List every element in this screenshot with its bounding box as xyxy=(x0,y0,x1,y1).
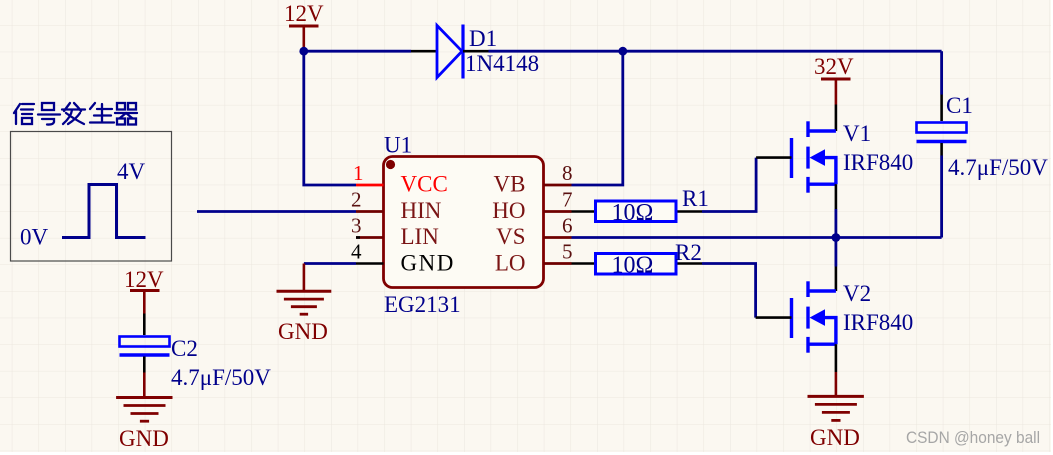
power port 12V (top) xyxy=(284,1,324,51)
transistor V1 arrow xyxy=(810,149,826,166)
svg-text:VCC: VCC xyxy=(401,172,448,197)
信 xyxy=(14,104,20,124)
signal generator title 信号发生器 xyxy=(14,103,137,125)
svg-text:VB: VB xyxy=(494,172,526,197)
生 xyxy=(90,103,114,123)
transistor V1 xyxy=(792,121,836,192)
发 xyxy=(62,103,85,124)
svg-text:V1: V1 xyxy=(843,121,871,146)
diode D1 xyxy=(437,25,463,79)
svg-text:0V: 0V xyxy=(20,225,49,250)
capacitor C1 xyxy=(917,123,967,142)
resistor R1 leads xyxy=(572,210,703,213)
capacitor C2 bottom lead xyxy=(143,357,146,373)
svg-text:R1: R1 xyxy=(682,186,709,211)
svg-text:3: 3 xyxy=(351,214,362,238)
resistor R2 leads xyxy=(572,262,703,265)
IC orientation dot xyxy=(386,160,395,169)
pin 8 stub xyxy=(544,184,572,187)
capacitor C1 top lead xyxy=(940,51,943,94)
transistor V2 xyxy=(792,281,836,352)
wire: top rail left (12V to diode) xyxy=(304,50,411,53)
svg-text:HO: HO xyxy=(492,198,525,223)
wire: V1 source to midpoint to V2 drain xyxy=(835,209,838,267)
signal generator box xyxy=(11,132,172,262)
junction above pin8 riser xyxy=(618,47,627,56)
power port 32V xyxy=(814,54,854,105)
resistor R2 xyxy=(596,254,677,275)
svg-text:10Ω: 10Ω xyxy=(612,253,654,279)
svg-text:12V: 12V xyxy=(124,267,164,292)
wire: VS rail xyxy=(572,236,942,239)
svg-text:32V: 32V xyxy=(814,54,854,79)
wire: riser down to pin 8 xyxy=(572,51,623,185)
capacitor C1 bottom lead xyxy=(940,143,943,156)
号 xyxy=(42,103,54,110)
wire: R1 to V1 gate xyxy=(702,158,756,212)
器 xyxy=(117,103,125,110)
wire: top rail diode to C1 corner xyxy=(489,50,942,53)
wire: HIN input xyxy=(197,210,356,213)
pin 2 stub xyxy=(356,210,384,213)
svg-text:C1: C1 xyxy=(946,93,973,118)
power port 12V (C2) xyxy=(124,267,164,314)
transistor V1 drain pin xyxy=(835,105,838,132)
svg-text:4.7μF/50V: 4.7μF/50V xyxy=(948,155,1048,180)
svg-text:GND: GND xyxy=(278,319,328,344)
transistor V2 source pin xyxy=(835,344,838,372)
svg-text:IRF840: IRF840 xyxy=(843,310,913,335)
junction at 12V rail xyxy=(299,47,308,56)
junction at half-bridge midpoint xyxy=(832,233,841,242)
svg-text:4V: 4V xyxy=(117,159,146,184)
capacitor C2 top lead xyxy=(143,314,146,336)
pin 1 stub (VCC, highlighted) xyxy=(356,184,384,187)
svg-text:7: 7 xyxy=(562,188,573,212)
svg-text:HIN: HIN xyxy=(401,198,442,223)
svg-text:1: 1 xyxy=(353,161,364,185)
pin 3 stub xyxy=(356,236,384,239)
diode D1 anode lead xyxy=(411,50,437,53)
svg-text:8: 8 xyxy=(562,161,573,185)
svg-text:VS: VS xyxy=(496,224,525,249)
svg-text:5: 5 xyxy=(562,240,573,264)
transistor V1 gate pin xyxy=(756,156,791,159)
pin 4 stub xyxy=(356,262,384,265)
diode D1 cathode lead xyxy=(463,50,489,53)
svg-text:V2: V2 xyxy=(843,281,871,306)
ground GND (V2) xyxy=(808,372,864,420)
svg-text:LIN: LIN xyxy=(401,224,440,249)
svg-text:D1: D1 xyxy=(469,26,497,51)
ground GND (U1) xyxy=(277,264,332,315)
svg-text:4.7μF/50V: 4.7μF/50V xyxy=(171,365,271,390)
pin 7 stub xyxy=(544,210,572,213)
svg-text:U1: U1 xyxy=(384,133,412,158)
svg-text:GND: GND xyxy=(810,425,860,450)
svg-text:IRF840: IRF840 xyxy=(843,150,913,175)
wire: R2 to V2 gate xyxy=(702,264,756,318)
resistor R1 xyxy=(596,201,677,222)
svg-text:1N4148: 1N4148 xyxy=(465,51,539,76)
svg-text:EG2131: EG2131 xyxy=(384,292,461,317)
waveform pulse xyxy=(62,185,146,238)
svg-text:2: 2 xyxy=(351,188,362,212)
svg-text:C2: C2 xyxy=(171,336,198,361)
capacitor C2 xyxy=(120,337,170,356)
transistor V2 arrow xyxy=(810,309,826,326)
svg-text:R2: R2 xyxy=(675,240,702,265)
svg-text:4: 4 xyxy=(351,240,362,264)
pin 6 stub xyxy=(544,236,572,239)
ground GND (C2) xyxy=(116,373,172,422)
svg-text:GND: GND xyxy=(401,251,455,276)
transistor V2 gate pin xyxy=(756,316,792,319)
svg-text:CSDN @honey ball: CSDN @honey ball xyxy=(906,428,1040,447)
svg-text:LO: LO xyxy=(495,251,526,276)
svg-text:12V: 12V xyxy=(284,1,324,26)
pin 5 stub xyxy=(544,262,572,265)
svg-text:GND: GND xyxy=(119,426,169,451)
svg-text:6: 6 xyxy=(562,214,573,238)
transistor V1 source pin xyxy=(835,184,838,209)
transistor V2 drain pin xyxy=(835,267,838,292)
svg-text:10Ω: 10Ω xyxy=(612,200,654,226)
wire: pin 4 to ground xyxy=(304,262,356,265)
wire: 12V down to pin 1 xyxy=(304,51,356,185)
IC U1 body xyxy=(384,157,544,288)
